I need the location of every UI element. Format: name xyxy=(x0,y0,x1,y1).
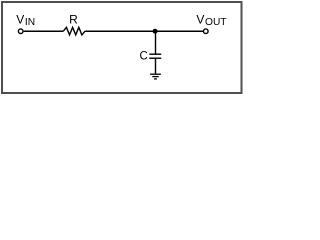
svg-text:R: R xyxy=(69,13,78,27)
resistor R xyxy=(63,27,85,35)
svg-text:C: C xyxy=(140,51,148,63)
svg-text:VOUT: VOUT xyxy=(196,13,226,28)
terminal VIN xyxy=(18,29,23,34)
svg-text:VIN: VIN xyxy=(16,13,35,28)
wire xyxy=(155,31,157,54)
wire xyxy=(24,30,64,32)
wire xyxy=(85,30,203,32)
junction node xyxy=(153,29,158,34)
capacitor C xyxy=(149,53,161,55)
wire xyxy=(155,58,157,74)
terminal VOUT xyxy=(204,29,209,34)
ground xyxy=(150,73,161,75)
